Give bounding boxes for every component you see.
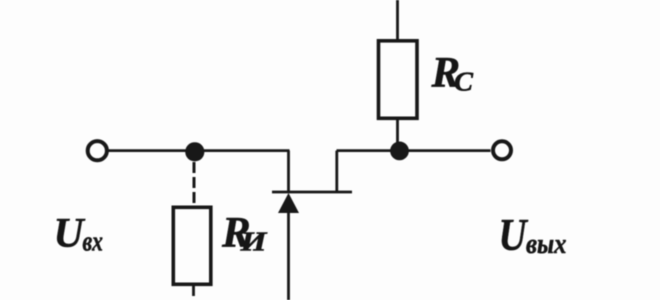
svg-text:вых: вых [526,229,567,260]
transistor VT1: gate arrow (n-channel) [278,193,299,213]
label: RИ (source resistor designator) [221,210,268,257]
svg-text:И: И [239,227,267,257]
resistor RИ [173,207,211,284]
terminal: output (open circle) [493,141,511,159]
svg-text:C: C [454,67,474,97]
terminal: input (open circle) [88,141,107,160]
wire: dashed link from input node down to RИ [193,162,196,206]
wire: drain supply lead (top, off-page) [396,0,399,41]
transistor VT1: upper gate lead [287,151,290,192]
node: drain output junction (filled dot) [390,142,409,161]
transistor VT1: n-channel FET (channel bar, drain lead, gate lead with arrow, source lead) [272,151,352,300]
node: input junction (filled dot) [185,142,204,161]
label: RC (drain resistor designator) [431,50,475,97]
wire: drain node horizontal rail to output terminal [337,149,491,152]
resistor RC [379,41,418,119]
svg-text:U: U [54,211,87,257]
transistor VT1: drain lead [335,151,338,192]
transistor VT1: channel bar [272,191,352,194]
wire: RИ bottom lead [192,284,195,296]
label: U_вх (input voltage) [54,211,104,258]
wire: input terminal to gate [107,149,290,152]
label: U_вых (output voltage) [499,210,567,260]
wire: RC bottom to drain node [396,118,399,149]
transistor VT1: source lead to bottom rail (off-page) [287,212,290,300]
svg-text:вх: вх [83,227,104,258]
svg-text:U: U [499,210,529,260]
